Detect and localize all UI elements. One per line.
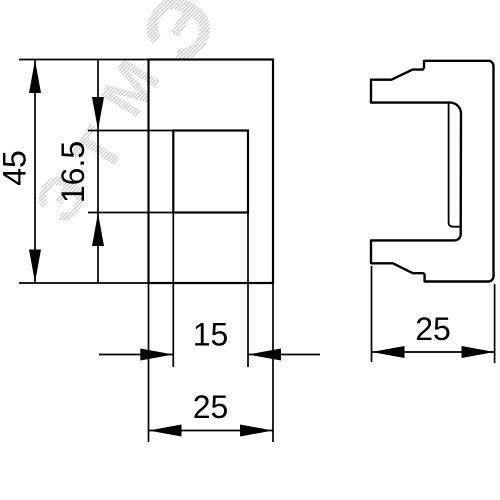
extension line lower (16.5) [88, 212, 173, 214]
dimension line 15 left tail [99, 354, 173, 356]
side profile outline [371, 61, 494, 282]
svg-text:16.5: 16.5 [55, 141, 91, 203]
extension line left of 25 (front) [148, 283, 150, 442]
side profile inner lip [449, 103, 461, 227]
arrow 15 left (points right) [140, 349, 173, 361]
svg-text:15: 15 [193, 317, 229, 353]
front view outer rectangle [149, 60, 274, 284]
dimension line 16.5 [97, 60, 99, 284]
extension line left of 25 (side) [371, 266, 373, 362]
arrow 15 right (points left) [248, 349, 281, 361]
dimension line 15 right tail [248, 354, 320, 356]
arrow 25 side left [372, 346, 405, 358]
arrow 25 front right [240, 425, 273, 437]
dimension line 45 [34, 60, 36, 283]
arrow 16.5 lower (points up) [92, 213, 104, 246]
svg-text:25: 25 [193, 389, 229, 425]
extension line top (45) [19, 59, 149, 61]
front view inner square (opening 15 x 16.5) [173, 131, 248, 213]
arrow 25 front left [149, 425, 182, 437]
watermark letters ЭТМ [22, 0, 238, 235]
extension line left of 15 [172, 213, 174, 368]
extension line right of 25 (front) [272, 283, 274, 442]
arrow 16.5 upper (points down) [92, 97, 104, 130]
extension line upper (16.5) [88, 130, 173, 132]
arrow 25 side right [462, 346, 495, 358]
extension line right of 15 [247, 213, 249, 368]
dimension line 25 (front) [149, 430, 274, 432]
arrow 45 down [29, 250, 41, 283]
dimension line 25 (side) [372, 351, 495, 353]
svg-text:25: 25 [415, 311, 451, 347]
extension line right of 25 (side) [494, 284, 496, 363]
arrow 45 up [29, 60, 41, 93]
svg-text:45: 45 [0, 150, 33, 186]
extension line bottom (45) [19, 282, 149, 284]
